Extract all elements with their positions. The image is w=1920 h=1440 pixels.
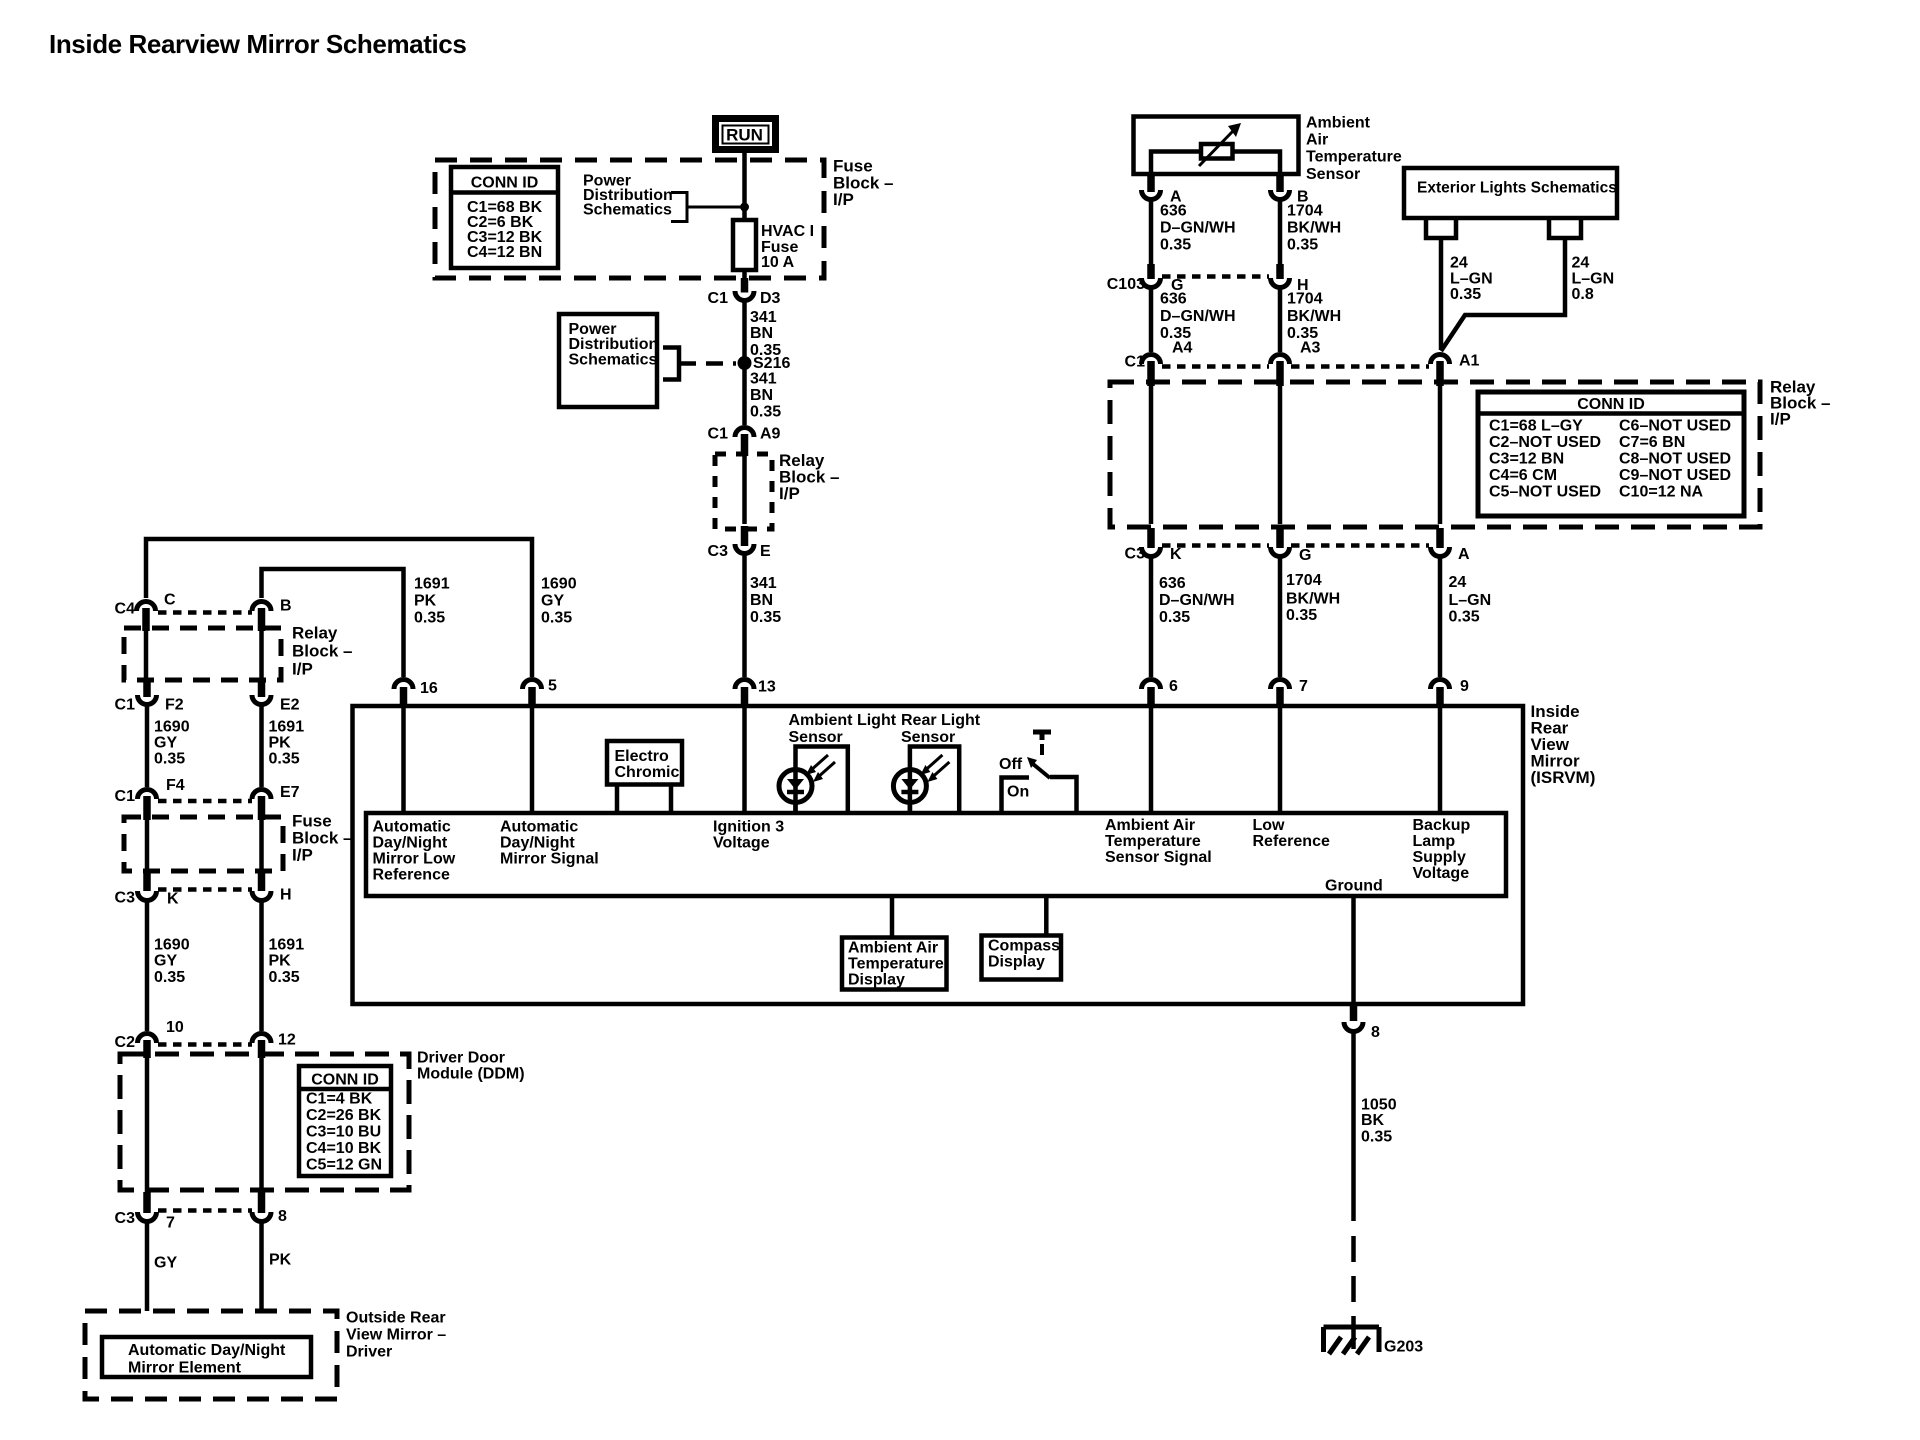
svg-text:CONN ID: CONN ID [311, 1072, 379, 1089]
svg-text:6: 6 [1169, 678, 1178, 695]
svg-text:A3: A3 [1300, 340, 1321, 357]
svg-text:1691: 1691 [269, 719, 305, 736]
svg-text:RUN: RUN [726, 126, 763, 145]
svg-text:12: 12 [278, 1032, 296, 1049]
svg-text:341: 341 [750, 371, 777, 388]
svg-text:BK/WH: BK/WH [1287, 220, 1341, 237]
svg-text:K: K [167, 891, 179, 908]
svg-text:0.8: 0.8 [1572, 286, 1594, 303]
svg-text:Voltage: Voltage [1413, 865, 1470, 882]
svg-text:A: A [1458, 546, 1470, 563]
svg-text:Compass: Compass [988, 938, 1060, 955]
svg-text:Distribution: Distribution [569, 336, 659, 353]
svg-text:D–GN/WH: D–GN/WH [1160, 308, 1236, 325]
svg-text:C4=6 CM: C4=6 CM [1489, 467, 1557, 484]
svg-text:BN: BN [750, 592, 773, 609]
svg-text:E: E [760, 543, 771, 560]
svg-text:BN: BN [750, 325, 773, 342]
svg-text:0.35: 0.35 [1159, 609, 1190, 626]
svg-text:0.35: 0.35 [750, 609, 781, 626]
svg-text:I/P: I/P [292, 846, 313, 865]
svg-text:Driver Door: Driver Door [417, 1050, 505, 1067]
svg-text:CONN ID: CONN ID [471, 175, 539, 192]
svg-text:1690: 1690 [154, 937, 190, 954]
svg-text:Temperature: Temperature [848, 956, 944, 973]
svg-text:A1: A1 [1459, 353, 1480, 370]
svg-text:C2: C2 [115, 1034, 136, 1051]
svg-text:Inside Rearview Mirror Schemat: Inside Rearview Mirror Schematics [49, 29, 466, 59]
svg-text:K: K [1170, 546, 1182, 563]
svg-text:Outside Rear: Outside Rear [346, 1310, 446, 1327]
svg-text:10: 10 [166, 1019, 184, 1036]
svg-text:1690: 1690 [541, 576, 577, 593]
svg-text:C3: C3 [115, 1210, 136, 1227]
svg-text:C8–NOT USED: C8–NOT USED [1619, 451, 1731, 468]
svg-text:Schematics: Schematics [583, 202, 672, 219]
svg-text:L–GN: L–GN [1450, 271, 1493, 288]
svg-text:CONN ID: CONN ID [1577, 396, 1645, 413]
svg-text:C2=26 BK: C2=26 BK [306, 1107, 382, 1124]
svg-text:7: 7 [1299, 678, 1308, 695]
svg-text:0.35: 0.35 [1361, 1129, 1392, 1146]
svg-text:Backup: Backup [1413, 817, 1471, 834]
svg-text:Air: Air [1306, 132, 1328, 149]
svg-text:GY: GY [154, 953, 177, 970]
svg-text:5: 5 [548, 678, 557, 695]
svg-text:PK: PK [269, 953, 292, 970]
svg-text:0.35: 0.35 [154, 751, 185, 768]
svg-text:0.35: 0.35 [1449, 609, 1480, 626]
svg-text:Block –: Block – [292, 642, 352, 661]
svg-text:Display: Display [988, 954, 1045, 971]
svg-text:1704: 1704 [1287, 203, 1323, 220]
svg-text:Rear Light: Rear Light [901, 712, 981, 729]
svg-text:C4=12 BN: C4=12 BN [467, 244, 542, 261]
svg-text:24: 24 [1449, 574, 1467, 591]
svg-text:HVAC I: HVAC I [761, 223, 814, 240]
svg-text:A4: A4 [1172, 340, 1193, 357]
svg-text:On: On [1007, 784, 1029, 801]
svg-text:Sensor: Sensor [789, 729, 843, 746]
svg-text:GY: GY [154, 735, 177, 752]
svg-text:C5–NOT USED: C5–NOT USED [1489, 484, 1601, 501]
svg-text:E2: E2 [280, 697, 300, 714]
svg-text:Reference: Reference [1253, 833, 1330, 850]
svg-text:F2: F2 [165, 697, 184, 714]
svg-text:Sensor: Sensor [1306, 166, 1360, 183]
svg-text:1691: 1691 [269, 937, 305, 954]
svg-text:BK/WH: BK/WH [1287, 308, 1341, 325]
svg-text:636: 636 [1160, 203, 1187, 220]
svg-text:L–GN: L–GN [1449, 592, 1492, 609]
svg-text:C9–NOT USED: C9–NOT USED [1619, 467, 1731, 484]
svg-text:1704: 1704 [1287, 291, 1323, 308]
svg-text:0.35: 0.35 [154, 969, 185, 986]
svg-text:C3=12 BN: C3=12 BN [1489, 451, 1564, 468]
svg-text:0.35: 0.35 [1160, 237, 1191, 254]
svg-text:0.35: 0.35 [414, 610, 445, 627]
svg-text:C1=4 BK: C1=4 BK [306, 1091, 373, 1108]
svg-text:D3: D3 [760, 290, 781, 307]
svg-text:341: 341 [750, 575, 777, 592]
svg-text:Temperature: Temperature [1105, 833, 1201, 850]
svg-text:E7: E7 [280, 784, 300, 801]
svg-text:C1: C1 [1125, 354, 1146, 371]
svg-text:Sensor Signal: Sensor Signal [1105, 849, 1212, 866]
svg-text:H: H [280, 887, 292, 904]
svg-text:24: 24 [1572, 255, 1590, 272]
svg-text:Relay: Relay [292, 624, 338, 643]
svg-text:C6–NOT USED: C6–NOT USED [1619, 418, 1731, 435]
svg-text:GY: GY [154, 1255, 177, 1272]
svg-text:Low: Low [1253, 817, 1286, 834]
svg-text:PK: PK [269, 735, 292, 752]
svg-text:Ignition 3: Ignition 3 [713, 819, 784, 836]
svg-text:C7=6 BN: C7=6 BN [1619, 434, 1685, 451]
svg-text:I/P: I/P [833, 190, 854, 209]
svg-text:Supply: Supply [1413, 849, 1466, 866]
svg-text:View Mirror –: View Mirror – [346, 1327, 446, 1344]
svg-text:Driver: Driver [346, 1344, 392, 1361]
svg-text:0.35: 0.35 [1450, 286, 1481, 303]
svg-text:8: 8 [1371, 1024, 1380, 1041]
svg-text:1704: 1704 [1286, 572, 1322, 589]
svg-text:Reference: Reference [373, 867, 450, 884]
svg-text:I/P: I/P [292, 660, 313, 679]
svg-text:0.35: 0.35 [269, 751, 300, 768]
svg-text:Mirror Low: Mirror Low [373, 851, 456, 868]
svg-text:Ambient Air: Ambient Air [848, 940, 938, 957]
svg-text:F4: F4 [166, 777, 185, 794]
svg-text:(ISRVM): (ISRVM) [1531, 768, 1596, 787]
svg-text:G: G [1299, 547, 1311, 564]
svg-text:C3: C3 [1125, 546, 1146, 563]
svg-text:1050: 1050 [1361, 1097, 1397, 1114]
svg-text:Lamp: Lamp [1413, 833, 1456, 850]
svg-text:C1: C1 [708, 290, 729, 307]
svg-text:S216: S216 [753, 355, 790, 372]
svg-text:0.35: 0.35 [750, 404, 781, 421]
svg-text:C3: C3 [115, 890, 136, 907]
svg-text:Off: Off [999, 756, 1023, 773]
svg-text:C2–NOT USED: C2–NOT USED [1489, 434, 1601, 451]
svg-text:Ground: Ground [1325, 878, 1383, 895]
svg-text:10 A: 10 A [761, 254, 795, 271]
svg-text:D–GN/WH: D–GN/WH [1159, 592, 1235, 609]
svg-text:Display: Display [848, 972, 905, 989]
svg-text:Exterior Lights Schematics: Exterior Lights Schematics [1417, 180, 1617, 197]
svg-text:9: 9 [1460, 678, 1469, 695]
svg-text:0.35: 0.35 [1286, 607, 1317, 624]
svg-text:C10=12 NA: C10=12 NA [1619, 484, 1703, 501]
svg-text:Ambient Air: Ambient Air [1105, 817, 1195, 834]
svg-text:C4: C4 [115, 601, 136, 618]
svg-text:0.35: 0.35 [1287, 237, 1318, 254]
svg-text:C4=10 BK: C4=10 BK [306, 1140, 382, 1157]
svg-text:Voltage: Voltage [713, 835, 770, 852]
svg-text:C: C [164, 592, 176, 609]
svg-text:PK: PK [414, 593, 437, 610]
svg-text:GY: GY [541, 593, 564, 610]
svg-text:Temperature: Temperature [1306, 149, 1402, 166]
svg-text:L–GN: L–GN [1572, 271, 1615, 288]
svg-text:B: B [280, 598, 292, 615]
svg-text:Automatic Day/Night: Automatic Day/Night [128, 1342, 286, 1359]
svg-text:Chromic: Chromic [615, 764, 680, 781]
svg-text:13: 13 [758, 679, 776, 696]
svg-text:D–GN/WH: D–GN/WH [1160, 220, 1236, 237]
svg-text:636: 636 [1160, 291, 1187, 308]
svg-text:C103: C103 [1107, 276, 1145, 293]
svg-text:7: 7 [166, 1215, 175, 1232]
svg-text:Day/Night: Day/Night [500, 835, 575, 852]
svg-text:C3=10 BU: C3=10 BU [306, 1124, 381, 1141]
svg-text:C1=68 L–GY: C1=68 L–GY [1489, 418, 1583, 435]
svg-text:C1: C1 [115, 788, 136, 805]
svg-text:PK: PK [269, 1252, 292, 1269]
svg-text:C1: C1 [708, 426, 729, 443]
svg-text:Mirror Signal: Mirror Signal [500, 851, 599, 868]
svg-text:Automatic: Automatic [500, 819, 578, 836]
svg-text:1691: 1691 [414, 576, 450, 593]
svg-text:Automatic: Automatic [373, 819, 451, 836]
svg-text:8: 8 [278, 1208, 287, 1225]
svg-text:Ambient Light: Ambient Light [789, 712, 897, 729]
svg-text:16: 16 [420, 680, 438, 697]
svg-text:636: 636 [1159, 575, 1186, 592]
svg-text:C3: C3 [708, 543, 729, 560]
svg-text:0.35: 0.35 [269, 969, 300, 986]
svg-text:BK: BK [1361, 1112, 1385, 1129]
svg-text:341: 341 [750, 309, 777, 326]
svg-text:Schematics: Schematics [569, 352, 658, 369]
svg-text:BN: BN [750, 387, 773, 404]
svg-text:24: 24 [1450, 255, 1468, 272]
svg-text:I/P: I/P [779, 484, 800, 503]
svg-text:A9: A9 [760, 426, 781, 443]
svg-text:G203: G203 [1384, 1339, 1423, 1356]
svg-text:Mirror Element: Mirror Element [128, 1360, 242, 1377]
svg-text:0.35: 0.35 [541, 610, 572, 627]
svg-text:Sensor: Sensor [901, 729, 955, 746]
svg-text:Module (DDM): Module (DDM) [417, 1066, 525, 1083]
svg-text:Day/Night: Day/Night [373, 835, 448, 852]
svg-text:Ambient: Ambient [1306, 115, 1371, 132]
svg-text:I/P: I/P [1770, 410, 1791, 429]
svg-text:BK/WH: BK/WH [1286, 591, 1340, 608]
svg-text:C5=12 GN: C5=12 GN [306, 1157, 382, 1174]
svg-text:C1: C1 [115, 697, 136, 714]
svg-text:Electro: Electro [615, 748, 669, 765]
svg-text:1690: 1690 [154, 719, 190, 736]
